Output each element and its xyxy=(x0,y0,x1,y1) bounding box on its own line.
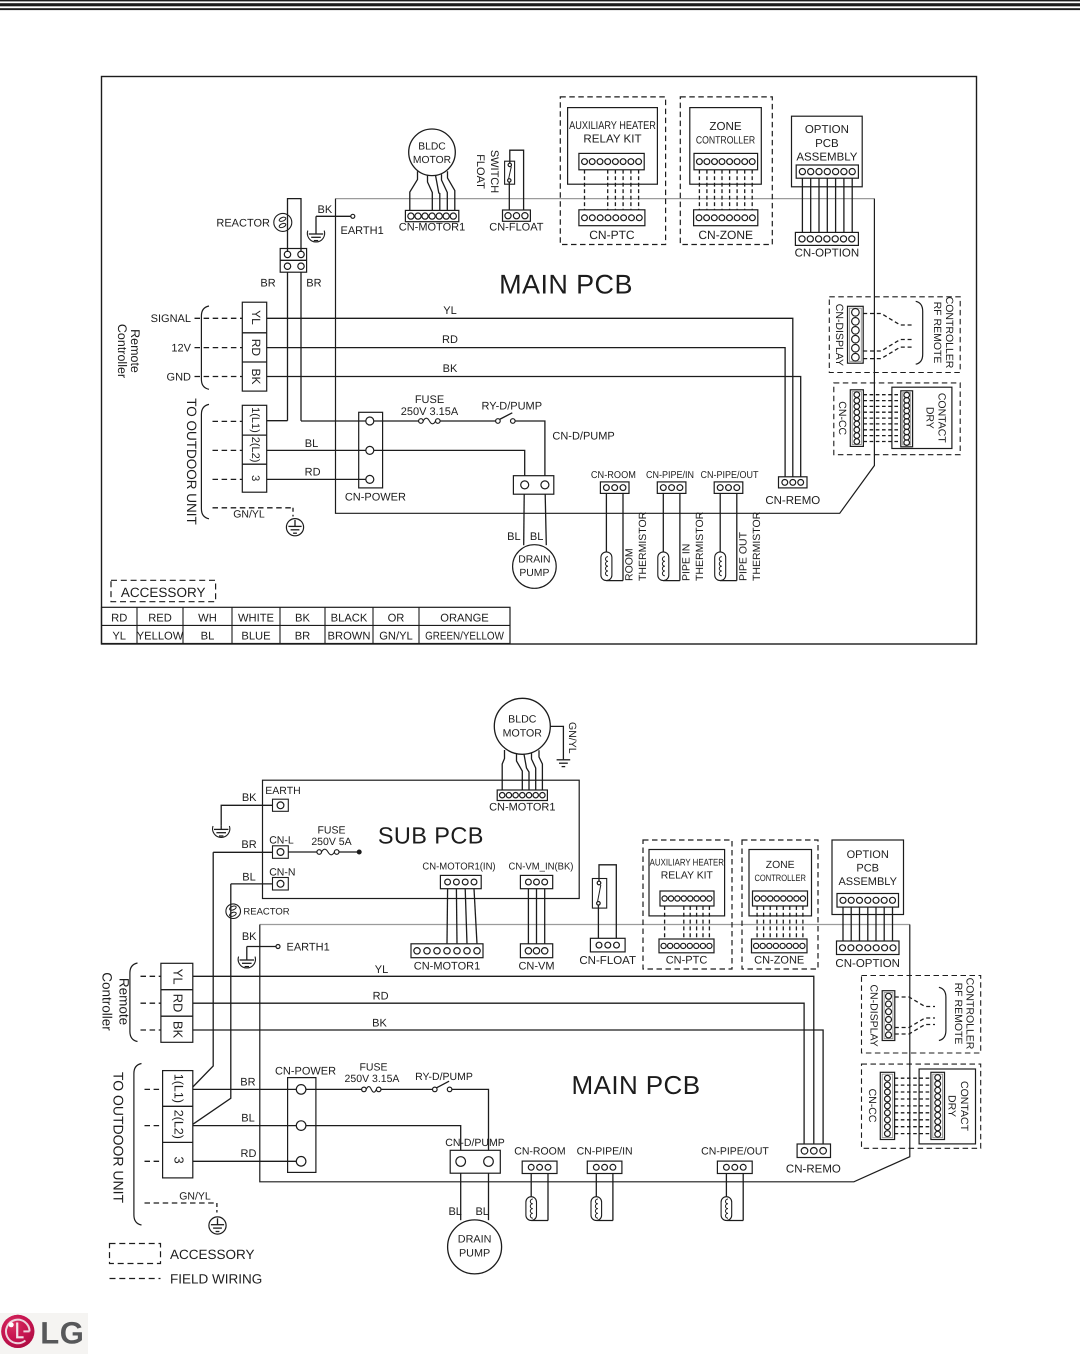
wire dashed zone to CN-ZONE (bottom diagram) xyxy=(757,906,803,939)
terminal strip YL/RD/BK (top diagram) xyxy=(242,302,266,391)
top diagram outer border xyxy=(102,77,977,645)
connector CN-PIPE/IN (top diagram) xyxy=(657,482,686,494)
connector aux relay kit header (bottom diagram) xyxy=(660,891,714,906)
svg-text:YL: YL xyxy=(375,964,388,976)
label Remote Controller (bottom diagram) xyxy=(100,972,132,1031)
label CN-ROOM (bottom diagram) xyxy=(514,1145,565,1157)
wire CN-VM_IN to CN-VM xyxy=(528,889,544,944)
svg-text:RD: RD xyxy=(373,991,389,1003)
svg-text:RD: RD xyxy=(305,466,321,478)
svg-text:THERMISTOR: THERMISTOR xyxy=(694,511,706,581)
svg-text:RD: RD xyxy=(111,612,127,624)
svg-text:BL: BL xyxy=(242,871,255,883)
svg-text:PUMP: PUMP xyxy=(459,1248,490,1260)
svg-text:FIELD WIRING: FIELD WIRING xyxy=(170,1272,262,1287)
wire dashed aux relay kit to CN-PTC xyxy=(585,170,639,210)
label TO OUTDOOR UNIT (bottom diagram) xyxy=(110,1072,126,1204)
ground earth1 symbol (top diagram) xyxy=(307,216,324,242)
svg-text:Controller: Controller xyxy=(100,972,115,1031)
label DRY CONTACT (bottom diagram) xyxy=(945,1081,970,1132)
label CN-FLOAT (top diagram) xyxy=(489,222,543,234)
auxiliary heater relay kit dashed enclosure (top diagram) xyxy=(560,97,665,245)
label CN-POWER (bottom diagram) xyxy=(275,1065,336,1077)
main pcb outline (bottom diagram) xyxy=(260,925,910,1182)
connector CN-PTC (top diagram) xyxy=(579,210,645,226)
wire dashed SIGNAL xyxy=(195,317,243,319)
svg-text:CONTACT: CONTACT xyxy=(958,1081,970,1132)
svg-text:CONTROLLER: CONTROLLER xyxy=(963,978,975,1050)
connector CN-MOTOR1 (top diagram) xyxy=(405,210,458,221)
svg-text:RELAY KIT: RELAY KIT xyxy=(661,871,714,882)
svg-text:GN/YL: GN/YL xyxy=(566,722,578,754)
cn-display dashed enclosure (top diagram) xyxy=(829,297,960,373)
svg-text:SUB PCB: SUB PCB xyxy=(378,823,484,849)
svg-text:RED: RED xyxy=(148,612,172,624)
svg-text:PCB: PCB xyxy=(856,863,879,875)
svg-text:PUMP: PUMP xyxy=(519,568,549,579)
pipe in thermistor RT5 (bottom diagram) xyxy=(591,1174,613,1221)
connector CN-MOTOR1(IN) xyxy=(440,875,481,888)
svg-text:BLDC: BLDC xyxy=(508,714,537,726)
room thermistor RT1 (top diagram) xyxy=(601,493,623,580)
label BR right xyxy=(306,278,321,290)
brace to outdoor unit (top diagram) xyxy=(201,404,209,518)
wire dashed aux kit to CN-PTC (bottom diagram) xyxy=(665,906,710,939)
wire dashed outdoor stubs (bottom diagram) xyxy=(145,1089,163,1161)
wire RD (3 to CN-POWER) xyxy=(267,478,366,480)
ground GN/YL circled earth (top diagram) xyxy=(286,519,303,536)
wire fuse to relay xyxy=(440,420,496,422)
svg-text:BL: BL xyxy=(201,631,215,643)
zone controller box (bottom diagram) xyxy=(749,850,812,916)
label EARTH1 (bottom diagram) xyxy=(287,942,330,954)
wire BLDC motor to CN-MOTOR1 (5 leads) xyxy=(410,171,455,210)
svg-text:CN-VM_IN(BK): CN-VM_IN(BK) xyxy=(509,862,574,873)
svg-text:BR: BR xyxy=(260,278,275,290)
label CN-PIPE/IN (bottom diagram) xyxy=(577,1145,633,1157)
wire RD to CN-REMO (bottom diagram) xyxy=(193,1003,804,1144)
label DRY CONTACT (top diagram) xyxy=(923,393,947,444)
zone controller dashed enclosure (bottom diagram) xyxy=(742,840,818,969)
svg-text:EARTH1: EARTH1 xyxy=(341,225,384,237)
label BL wire (bottom diagram) xyxy=(241,1112,254,1124)
svg-text:DRAIN: DRAIN xyxy=(458,1234,492,1246)
svg-text:CN-MOTOR1: CN-MOTOR1 xyxy=(399,222,465,234)
wire CN-POWER to fuse xyxy=(374,420,419,422)
svg-text:CN-MOTOR1(IN): CN-MOTOR1(IN) xyxy=(422,862,495,873)
svg-text:RD: RD xyxy=(241,1148,257,1160)
label BL (drain right, bottom) xyxy=(475,1206,488,1218)
terminal block TB1 (reactor, top diagram) xyxy=(280,249,306,273)
label CN-OPTION (top diagram) xyxy=(795,248,860,260)
connector CN-D/PUMP (top diagram) xyxy=(513,476,553,495)
svg-text:Controller: Controller xyxy=(115,324,129,378)
svg-text:GN/YL: GN/YL xyxy=(179,1190,211,1202)
wire dashed remote stubs (bottom diagram) xyxy=(141,976,161,1030)
connector CN-DISPLAY (top diagram) xyxy=(848,306,864,363)
label CN-D/PUMP (top diagram) xyxy=(552,431,614,443)
wire BL CN-POWER to CN-D/PUMP xyxy=(374,450,525,475)
dry contact box (bottom diagram) xyxy=(919,1069,975,1144)
svg-text:BK: BK xyxy=(249,368,263,384)
svg-text:GND: GND xyxy=(167,371,192,383)
connector dry contact header (bottom diagram) xyxy=(931,1072,945,1139)
label PIPE OUT THERMISTOR xyxy=(737,511,763,581)
connector CN-REMO (top diagram) xyxy=(779,477,808,488)
svg-text:BROWN: BROWN xyxy=(328,631,371,643)
svg-text:CN-OPTION: CN-OPTION xyxy=(835,958,900,970)
connector aux relay kit header (top diagram) xyxy=(579,153,644,169)
svg-text:DRY: DRY xyxy=(923,407,935,429)
label BK wire xyxy=(443,363,458,375)
float switch FS2 (bottom diagram) xyxy=(592,879,606,909)
svg-text:MAIN PCB: MAIN PCB xyxy=(572,1070,701,1100)
svg-text:SIGNAL: SIGNAL xyxy=(151,313,191,325)
cn-cc dashed enclosure (bottom diagram) xyxy=(862,1064,981,1148)
label CN-PIPE/OUT (top diagram) xyxy=(700,470,758,481)
wire CN-POWER to fuse (bottom) xyxy=(306,1088,362,1090)
svg-text:BK: BK xyxy=(295,612,310,624)
option pcb assembly box (top diagram) xyxy=(792,116,863,187)
wire BR right vertical (terminal block to CN-POWER) xyxy=(301,272,366,421)
connector CN-POWER (bottom diagram) xyxy=(288,1078,316,1173)
label RF REMOTE CONTROLLER (top diagram) xyxy=(931,297,955,369)
label CN-POWER (top diagram) xyxy=(345,492,406,504)
svg-text:ASSEMBLY: ASSEMBLY xyxy=(796,151,857,163)
label CN-PTC (top diagram) xyxy=(589,228,635,242)
label BL (sub pcb) xyxy=(242,871,255,883)
connector CN-FLOAT (top diagram) xyxy=(503,210,531,221)
wire GN/YL motor ground xyxy=(550,726,563,759)
label RY-D/PUMP (bottom diagram) xyxy=(415,1071,473,1083)
wire dashed to 1(L1) xyxy=(213,420,243,422)
label CN-ZONE (bottom diagram) xyxy=(754,954,804,966)
svg-text:GN/YL: GN/YL xyxy=(233,508,265,520)
relay contact RY-D/PUMP (bottom diagram) xyxy=(433,1081,452,1092)
connector CN-ZONE (top diagram) xyxy=(694,210,758,226)
svg-text:ZONE: ZONE xyxy=(709,120,741,133)
label BK wire (bottom diagram) xyxy=(372,1018,387,1030)
svg-text:DRY: DRY xyxy=(945,1095,957,1117)
label CN-PTC (bottom diagram) xyxy=(666,954,708,966)
wire fuse to node xyxy=(339,850,361,854)
zone controller box (top diagram) xyxy=(690,108,762,185)
accessory legend (bottom diagram) xyxy=(110,1244,255,1264)
svg-text:CONTROLLER: CONTROLLER xyxy=(696,135,756,147)
option pcb assembly box (bottom diagram) xyxy=(832,840,904,915)
wire BK earth to ground xyxy=(221,805,272,825)
wire dashed zone controller to CN-ZONE xyxy=(699,170,752,210)
label Remote Controller (top diagram) xyxy=(115,324,142,378)
svg-text:BK: BK xyxy=(242,931,257,943)
label BL (drain left, bottom) xyxy=(448,1206,461,1218)
svg-text:SWITCH: SWITCH xyxy=(488,150,500,193)
wire CN-D/PUMP to drain pump xyxy=(524,494,547,545)
connector CN-CC (bottom diagram) xyxy=(880,1072,894,1139)
label CN-DISPLAY (bottom diagram) xyxy=(867,984,879,1046)
brace remote controller (top diagram) xyxy=(201,306,209,389)
connector CN-PIPE/OUT (bottom diagram) xyxy=(717,1161,752,1173)
label CN-PIPE/IN (top diagram) xyxy=(646,470,694,481)
label REACTOR (top diagram) xyxy=(216,217,270,229)
wire float switch loop to CN-FLOAT xyxy=(509,150,523,210)
label CN-ZONE (top diagram) xyxy=(698,228,753,242)
svg-text:3: 3 xyxy=(249,475,261,481)
label YL wire xyxy=(443,305,456,317)
label CN-REMO (bottom diagram) xyxy=(786,1164,841,1176)
svg-text:3: 3 xyxy=(171,1156,186,1163)
svg-text:CN-OPTION: CN-OPTION xyxy=(795,248,860,260)
wire BL 2(L2) to CN-POWER xyxy=(193,1125,296,1127)
svg-text:CN-PTC: CN-PTC xyxy=(666,954,708,966)
svg-text:YL: YL xyxy=(249,310,263,325)
svg-text:FUSE: FUSE xyxy=(317,824,345,836)
label BL wire (top diagram) xyxy=(305,438,318,450)
connector CN-L (sub pcb) xyxy=(273,846,289,859)
svg-text:RD: RD xyxy=(442,334,458,346)
svg-text:12V: 12V xyxy=(171,343,191,355)
LG logo xyxy=(0,1313,88,1354)
label 250V 3.15A (bottom diagram) xyxy=(345,1073,400,1085)
label 250V 5A (sub pcb) xyxy=(311,836,351,848)
pipe out thermistor RT3 (top diagram) xyxy=(715,493,737,580)
svg-text:MAIN PCB: MAIN PCB xyxy=(499,269,633,299)
svg-text:CONTROLLER: CONTROLLER xyxy=(943,297,955,369)
fuse F1 (top diagram) xyxy=(419,418,441,424)
wire dashed rf link (bottom diagram) xyxy=(895,997,935,1034)
wire BR 1(L1) to CN-POWER xyxy=(193,1088,296,1090)
svg-text:250V 3.15A: 250V 3.15A xyxy=(401,406,459,418)
wire dashed cn-cc to dry contact (top diagram) xyxy=(863,395,900,442)
BLDC motor M1 (top diagram) xyxy=(409,129,456,176)
label 250V 3.15A (top diagram) xyxy=(401,406,459,418)
label CN-MOTOR1 sub pcb (bottom diagram) xyxy=(489,802,555,814)
label CN-MOTOR1(IN) (sub pcb) xyxy=(422,862,495,873)
label GN/YL (top diagram) xyxy=(233,508,265,520)
wire CN-D/PUMP to drain pump (bottom) xyxy=(461,1173,489,1220)
label GN/YL vertical (bottom diagram) xyxy=(566,722,578,754)
svg-text:CN-ROOM: CN-ROOM xyxy=(514,1145,565,1157)
wire YL to CN-REMO (bottom diagram) xyxy=(193,976,814,1144)
svg-text:BL: BL xyxy=(448,1206,461,1218)
svg-text:CN-REMO: CN-REMO xyxy=(765,495,820,507)
label CN-DISPLAY (top diagram) xyxy=(833,304,845,366)
wire RD (remote to CN-REMO) xyxy=(267,348,785,477)
connector CN-DISPLAY (bottom diagram) xyxy=(882,991,895,1041)
label CN-D/PUMP (bottom diagram) xyxy=(445,1137,505,1149)
label 12V xyxy=(171,343,191,355)
svg-text:CN-N: CN-N xyxy=(269,867,295,879)
wire reactor loop xyxy=(288,199,302,252)
svg-text:WH: WH xyxy=(198,612,217,624)
wire BL CN-POWER to CN-D/PUMP (bottom) xyxy=(306,1126,461,1151)
svg-text:CN-REMO: CN-REMO xyxy=(786,1164,841,1176)
svg-text:CN-PTC: CN-PTC xyxy=(589,228,635,242)
sub pcb outline (bottom diagram) xyxy=(263,780,580,898)
wire BLDC motor leads to CN-MOTOR1 (bottom diagram) xyxy=(502,750,542,790)
drain pump motor (top diagram) xyxy=(513,545,557,589)
connector CN-FLOAT (bottom diagram) xyxy=(590,938,625,952)
label CN-PIPE/OUT (bottom diagram) xyxy=(701,1145,769,1157)
label CN-CC (top diagram) xyxy=(836,401,848,435)
svg-text:YL: YL xyxy=(443,305,456,317)
svg-text:CN-DISPLAY: CN-DISPLAY xyxy=(833,304,845,366)
svg-text:BL: BL xyxy=(530,531,543,543)
connector CN-CC (top diagram) xyxy=(850,390,863,447)
svg-text:CN-PIPE/IN: CN-PIPE/IN xyxy=(646,470,694,481)
label BK (sub pcb earth) xyxy=(242,792,257,804)
svg-text:RY-D/PUMP: RY-D/PUMP xyxy=(415,1071,473,1083)
label FUSE (top diagram) xyxy=(415,394,444,406)
wire BL (2(L2) to CN-POWER) xyxy=(267,449,366,451)
svg-text:RF REMOTE: RF REMOTE xyxy=(952,983,964,1045)
svg-text:BL: BL xyxy=(241,1112,254,1124)
svg-text:CN-D/PUMP: CN-D/PUMP xyxy=(445,1137,505,1149)
svg-text:2(L2): 2(L2) xyxy=(249,437,261,463)
label BL (drain right) xyxy=(530,531,543,543)
svg-text:FLOAT: FLOAT xyxy=(474,154,486,189)
label ROOM THERMISTOR xyxy=(624,511,650,581)
wire BL long vertical to 2(L2) (bottom diagram) xyxy=(193,884,231,1124)
connector zone controller header (top diagram) xyxy=(694,153,758,169)
connector CN-OPTION (bottom diagram) xyxy=(837,941,900,955)
label CN-VM (bottom diagram) xyxy=(518,961,554,973)
label BR left xyxy=(260,278,275,290)
pipe out thermistor RT6 (bottom diagram) xyxy=(721,1174,743,1221)
terminal strip 1(L1)/2(L2)/3 (top diagram) xyxy=(242,405,266,492)
label RD wire (bottom diagram) xyxy=(373,991,389,1003)
connector CN-ROOM (top diagram) xyxy=(600,482,629,494)
svg-text:REACTOR: REACTOR xyxy=(243,907,289,918)
label PIPE IN THERMISTOR xyxy=(681,511,707,581)
svg-text:CN-D/PUMP: CN-D/PUMP xyxy=(552,431,614,443)
svg-text:BL: BL xyxy=(507,531,520,543)
label RD wire (bottom diagram) xyxy=(241,1148,257,1160)
connector CN-PIPE/OUT (top diagram) xyxy=(714,482,743,494)
svg-text:Remote: Remote xyxy=(128,329,142,373)
svg-text:ORANGE: ORANGE xyxy=(440,612,489,624)
label BR (sub pcb) xyxy=(241,839,256,851)
svg-text:MOTOR: MOTOR xyxy=(413,155,451,166)
wire RD 3 to CN-POWER xyxy=(193,1160,296,1162)
svg-text:CONTACT: CONTACT xyxy=(936,393,948,444)
svg-text:PIPE IN: PIPE IN xyxy=(681,544,693,581)
page header rule (triple line) xyxy=(0,0,1080,10)
terminal strip 1(L1)/2(L2)/3 (bottom diagram) xyxy=(163,1071,193,1178)
svg-text:PIPE OUT: PIPE OUT xyxy=(737,531,749,581)
ground earth1 (bottom diagram) xyxy=(238,956,255,968)
svg-text:ROOM: ROOM xyxy=(624,548,636,581)
label RD wire xyxy=(442,334,458,346)
brace rf remote controller (top diagram) xyxy=(916,301,923,364)
svg-text:1(L1): 1(L1) xyxy=(171,1074,185,1103)
auxiliary heater relay kit dashed enclosure (bottom diagram) xyxy=(643,840,732,969)
brace rf remote controller (bottom diagram) xyxy=(939,987,946,1040)
connector zone controller header (bottom diagram) xyxy=(753,891,808,906)
wire BR long vertical to 1(L1) (bottom diagram) xyxy=(193,852,213,1087)
svg-text:1(L1): 1(L1) xyxy=(249,407,261,433)
label CN-MOTOR1 main pcb (bottom diagram) xyxy=(414,961,480,973)
svg-text:REACTOR: REACTOR xyxy=(216,217,270,229)
label EARTH (sub pcb) xyxy=(265,785,300,797)
svg-text:FUSE: FUSE xyxy=(359,1062,387,1074)
svg-text:CN-CC: CN-CC xyxy=(866,1089,878,1123)
svg-text:BLACK: BLACK xyxy=(331,612,368,624)
svg-text:BK: BK xyxy=(372,1018,387,1030)
label RD wire (top diagram) xyxy=(305,466,321,478)
svg-text:YELLOW: YELLOW xyxy=(137,631,184,643)
connector CN-D/PUMP (bottom diagram) xyxy=(450,1150,500,1173)
svg-text:250V 5A: 250V 5A xyxy=(311,836,351,848)
svg-text:BLUE: BLUE xyxy=(241,631,270,643)
svg-text:YL: YL xyxy=(171,969,186,985)
brace to outdoor unit (bottom diagram) xyxy=(134,1064,142,1226)
label CN-VM_IN(BK) (sub pcb) xyxy=(509,862,574,873)
wire dashed rf link (top diagram) xyxy=(863,314,913,359)
dry contact box (top diagram) xyxy=(892,387,952,448)
wire fuse to relay (bottom) xyxy=(381,1088,433,1090)
svg-text:CN-FLOAT: CN-FLOAT xyxy=(579,955,636,967)
fuse F2 (sub pcb) xyxy=(317,849,339,855)
cn-cc dashed enclosure (top diagram) xyxy=(834,383,960,455)
svg-text:WHITE: WHITE xyxy=(238,612,274,624)
label FUSE (sub pcb) xyxy=(317,824,345,836)
reactor L2 symbol (bottom diagram) xyxy=(226,904,241,919)
ground sub pcb earth (bottom diagram) xyxy=(213,825,230,837)
svg-text:RD: RD xyxy=(249,339,263,357)
label BK (earth1, bottom diagram) xyxy=(242,931,257,943)
wire option pcb to CN-OPTION (bottom diagram) xyxy=(843,907,893,941)
connector CN-N (sub pcb) xyxy=(273,878,289,891)
svg-text:THERMISTOR: THERMISTOR xyxy=(751,511,763,581)
wire CN-MOTOR1(IN) to CN-MOTOR1 xyxy=(447,889,477,944)
drain pump motor (bottom diagram) xyxy=(448,1220,502,1274)
svg-text:GN/YL: GN/YL xyxy=(379,631,413,643)
label BK (earth wire, top diagram) xyxy=(318,204,333,216)
fuse F3 (bottom diagram) xyxy=(362,1087,381,1093)
wire dashed GN/YL (top diagram) xyxy=(213,508,294,517)
accessory legend box (top diagram) xyxy=(111,580,216,601)
svg-text:OR: OR xyxy=(388,612,405,624)
auxiliary heater relay kit box (top diagram) xyxy=(568,108,658,185)
svg-text:CN-DISPLAY: CN-DISPLAY xyxy=(867,984,879,1046)
svg-text:BR: BR xyxy=(306,278,321,290)
connector CN-PTC (bottom diagram) xyxy=(659,939,714,953)
svg-text:OPTION: OPTION xyxy=(805,124,849,136)
wire float switch loop (bottom diagram) xyxy=(598,865,616,939)
relay contact RY-D/PUMP (top diagram) xyxy=(496,413,515,424)
wire BK to CN-REMO (bottom diagram) xyxy=(193,1030,823,1144)
wire BR left vertical (terminal block to 1(L1)) xyxy=(267,272,288,421)
label BL (drain left) xyxy=(507,531,520,543)
connector dry contact header (top diagram) xyxy=(901,391,913,447)
svg-text:MOTOR: MOTOR xyxy=(503,728,543,740)
svg-text:CONTROLLER: CONTROLLER xyxy=(754,873,806,883)
ground GN/YL circled earth (bottom diagram) xyxy=(209,1217,226,1234)
connector CN-PIPE/IN (bottom diagram) xyxy=(587,1161,622,1173)
svg-text:RD: RD xyxy=(171,994,186,1013)
svg-text:CN-CC: CN-CC xyxy=(836,401,848,435)
cn-display dashed enclosure (bottom diagram) xyxy=(862,976,981,1054)
svg-text:CN-POWER: CN-POWER xyxy=(275,1065,336,1077)
label EARTH1 (top diagram) xyxy=(341,225,384,237)
connector CN-MOTOR1 on sub pcb (bottom diagram) xyxy=(497,790,547,801)
connector CN-VM (bottom diagram) xyxy=(520,944,552,958)
label CN-REMO (top diagram) xyxy=(765,495,820,507)
svg-text:ACCESSORY: ACCESSORY xyxy=(170,1247,255,1262)
label YL wire (bottom diagram) xyxy=(375,964,388,976)
connector CN-REMO (bottom diagram) xyxy=(797,1144,830,1158)
